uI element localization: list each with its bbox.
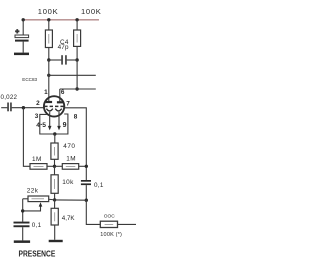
capacitor C-filter electrolytic <box>15 29 29 42</box>
svg-text:100K: 100K <box>81 7 102 16</box>
wire pin1 to plate <box>48 60 50 102</box>
svg-text:0,1: 0,1 <box>94 182 104 189</box>
tube V1 ECC83 envelope <box>44 96 64 116</box>
node grid2-line <box>75 87 78 90</box>
svg-text:3: 3 <box>35 113 39 120</box>
svg-text:10k: 10k <box>62 179 74 186</box>
svg-text:100K: 100K <box>38 7 59 16</box>
wire plate2 node down <box>76 60 78 89</box>
node grid2-join <box>85 165 88 168</box>
resistor R1 100K <box>45 20 52 60</box>
resistor R-cathode 470 <box>51 143 58 166</box>
wire nfb row <box>55 199 87 201</box>
svg-text:1M: 1M <box>32 156 42 163</box>
svg-text:PRESENCE: PRESENCE <box>19 250 56 259</box>
node grid1 <box>22 106 25 109</box>
wire filter cap to ground <box>22 42 24 53</box>
svg-text:470: 470 <box>63 143 75 150</box>
svg-text:8: 8 <box>74 113 78 120</box>
node rail-R2 <box>75 18 78 21</box>
svg-text:1M: 1M <box>66 156 76 163</box>
svg-text:7: 7 <box>66 101 70 108</box>
svg-text:5: 5 <box>42 122 46 129</box>
node cathode <box>53 132 56 135</box>
tube grid dashes <box>44 105 64 107</box>
ground filter-cap <box>14 53 29 56</box>
node rail-R1 <box>47 18 50 21</box>
capacitor C-out 0,1 <box>81 180 91 200</box>
wire nfb to pot <box>86 200 100 224</box>
resistor R-grid2 1M <box>55 164 87 170</box>
svg-text:9: 9 <box>63 122 67 129</box>
resistor R-tail 10k <box>51 166 58 200</box>
capacitor C-presence 0,1 <box>14 222 30 241</box>
node plate1-tap <box>47 74 50 77</box>
tube cathode cups <box>46 109 52 111</box>
svg-text:OOC: OOC <box>104 214 115 220</box>
wire pin6 to plate <box>59 89 61 102</box>
wire grid1 down <box>23 108 30 167</box>
node nfb <box>85 199 88 202</box>
capacitor C4 47p <box>49 55 77 64</box>
node rail-left <box>22 18 25 21</box>
node plate2 <box>75 58 78 61</box>
svg-text:2: 2 <box>36 100 40 107</box>
heater arrow 4-5 <box>48 112 52 131</box>
svg-text:100K (*): 100K (*) <box>100 232 122 238</box>
svg-text:0,1: 0,1 <box>32 222 42 229</box>
wire pin7 to grid2 chain <box>64 108 86 180</box>
svg-text:4,7K: 4,7K <box>62 215 76 222</box>
node tail <box>53 165 56 168</box>
ground 4,7K <box>49 240 63 242</box>
capacitor C-input 0,022 <box>1 103 44 112</box>
potentiometer presence 100K <box>100 221 136 227</box>
wire pin3 cathode <box>40 114 68 134</box>
wire rail to filter cap <box>22 20 24 35</box>
wire output tap lower / pin6 line <box>60 88 96 90</box>
wire 22k left leg <box>22 199 24 222</box>
tube plate bars <box>46 101 53 103</box>
wire HT rail <box>23 19 99 21</box>
heater dash <box>41 123 42 125</box>
svg-text:6: 6 <box>61 89 65 96</box>
node plate1 <box>47 58 50 61</box>
svg-text:ECC83: ECC83 <box>22 77 37 82</box>
svg-text:0,022: 0,022 <box>1 94 18 101</box>
svg-text:1: 1 <box>44 89 48 96</box>
wiper arrow 22k <box>23 202 43 211</box>
heater arrow 9 <box>57 112 61 131</box>
resistor R-grid1 1M <box>30 164 55 170</box>
resistor R 4,7K <box>51 200 58 240</box>
ground presence-cap <box>14 240 30 243</box>
svg-text:+: + <box>15 29 19 36</box>
resistor R2 100K <box>74 20 81 60</box>
svg-text:22k: 22k <box>27 188 39 195</box>
wire output tap upper <box>49 74 96 76</box>
resistor R-presence 22k (rheostat) <box>23 196 55 202</box>
wire cathode to 470 <box>54 134 56 143</box>
node wiper-join <box>21 209 24 212</box>
node tail-bottom <box>53 198 56 201</box>
svg-text:47p: 47p <box>58 44 69 51</box>
